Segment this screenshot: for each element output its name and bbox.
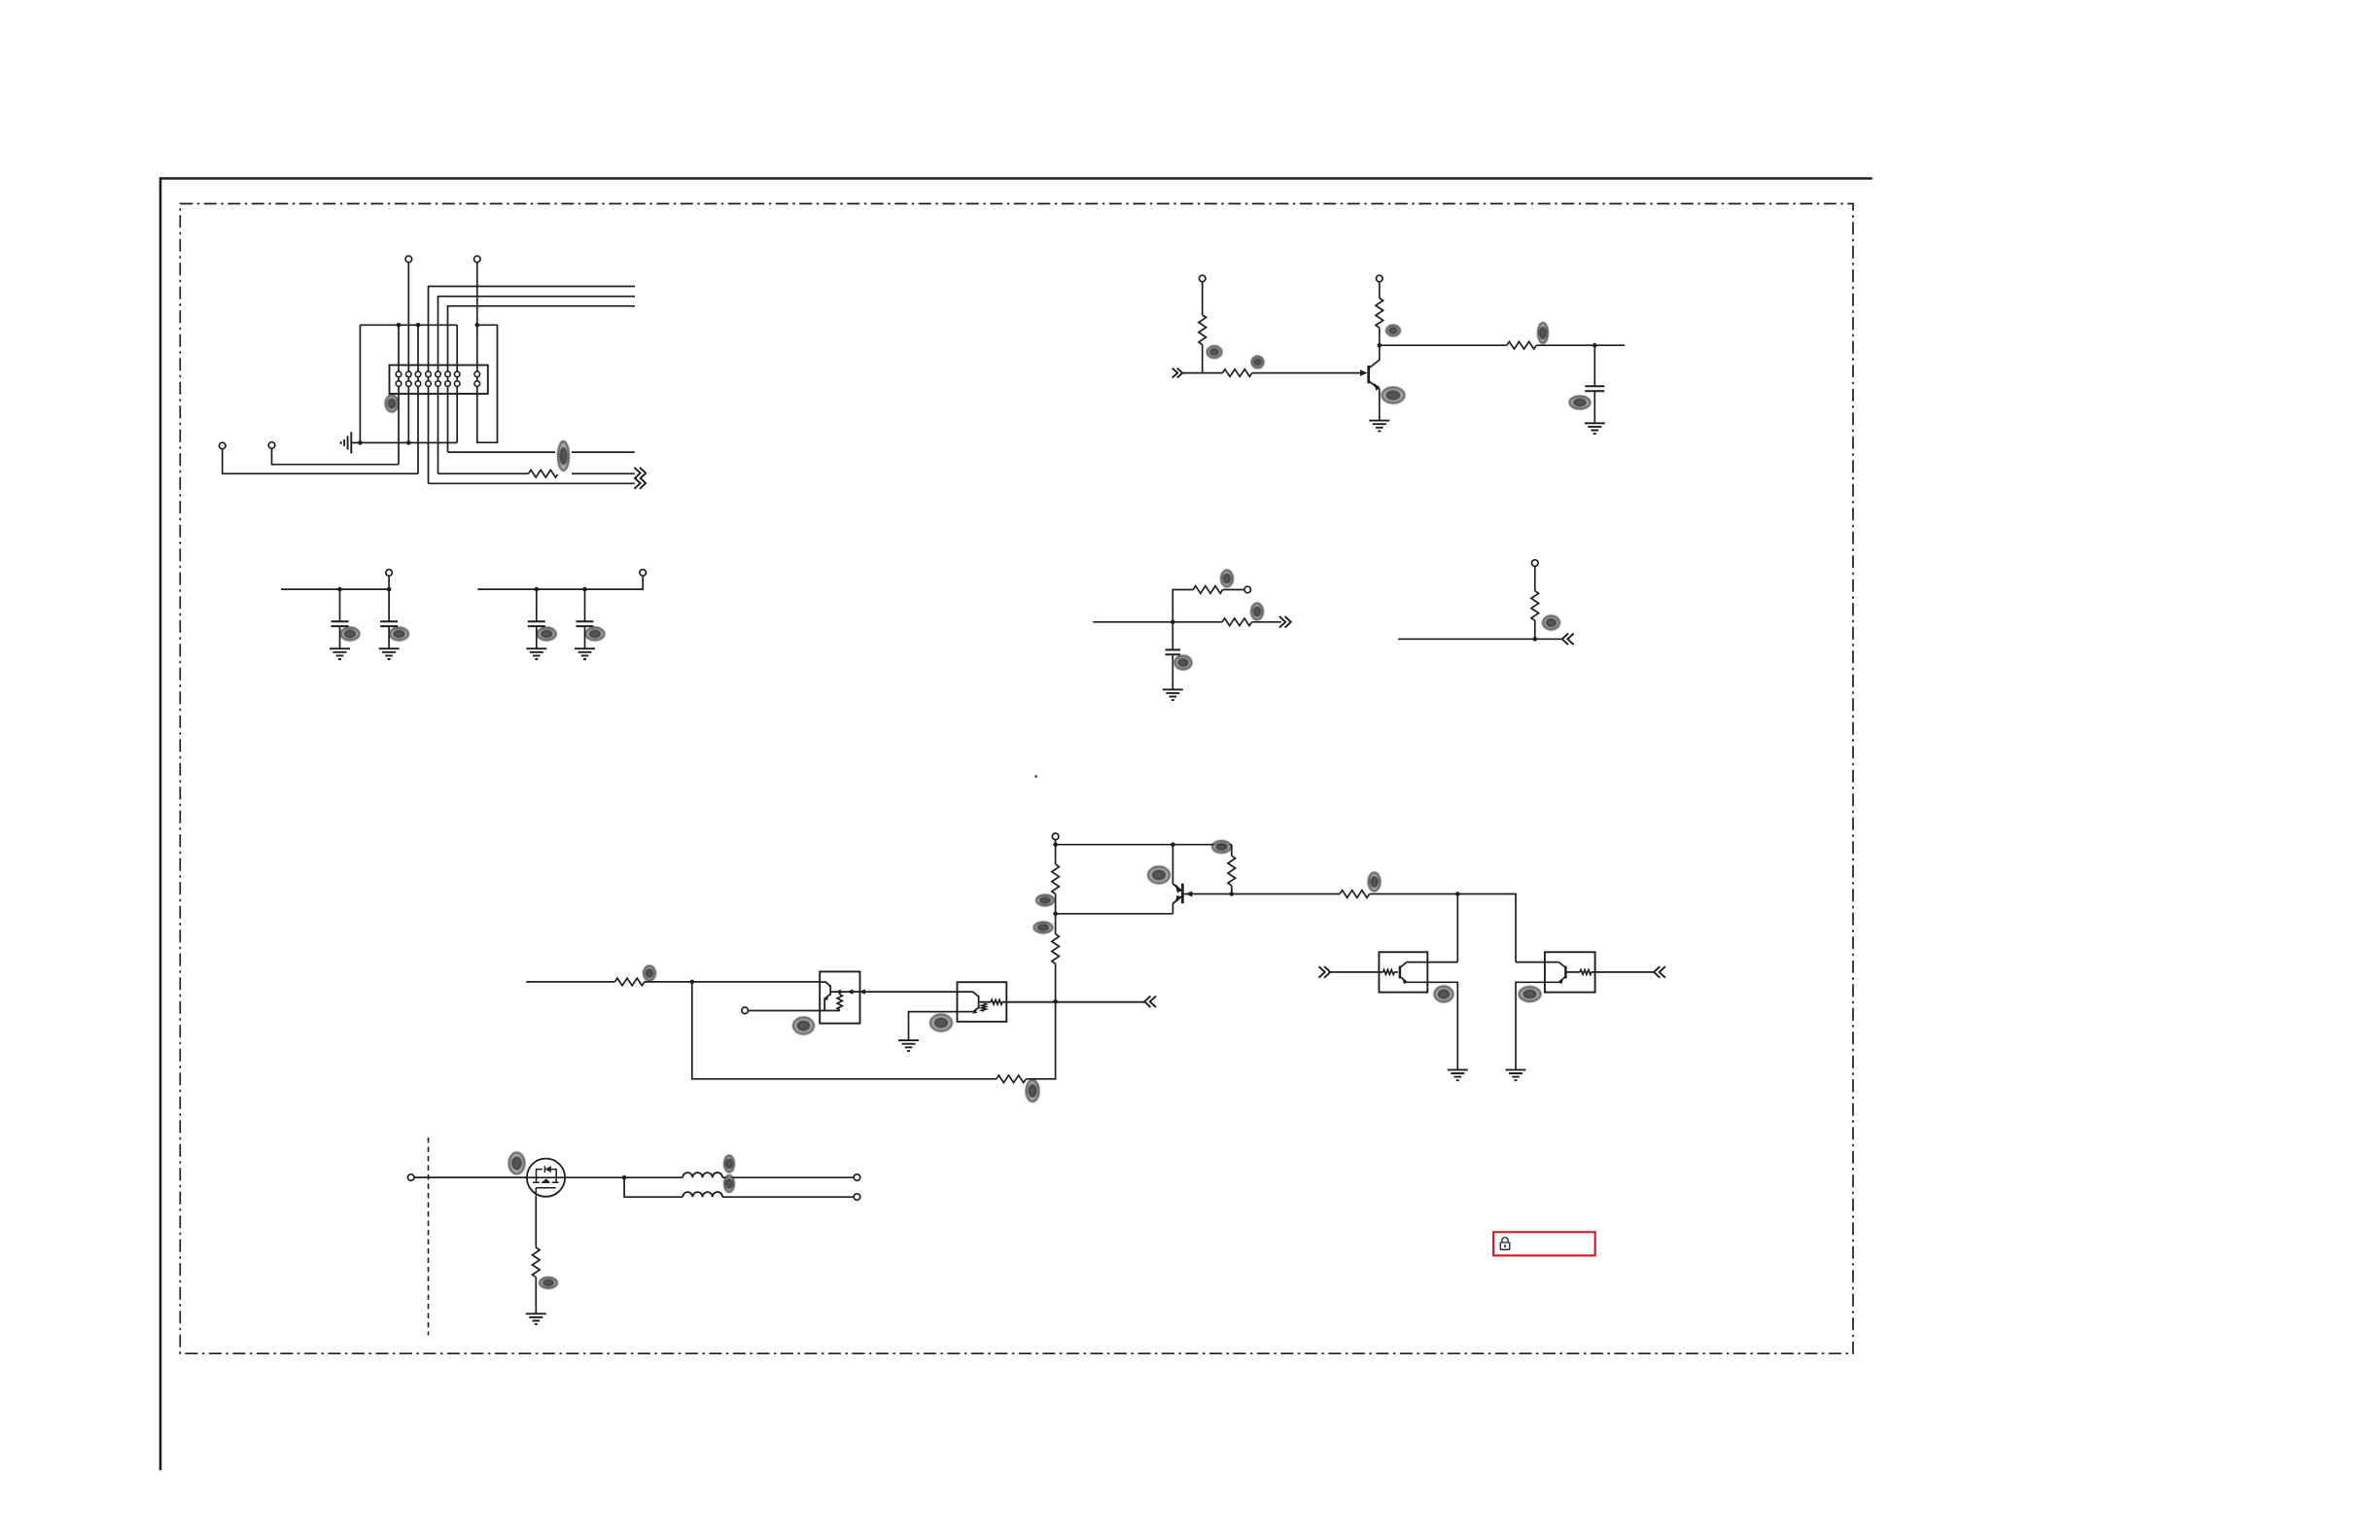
- optocoupler U4 body: [1545, 952, 1595, 992]
- input arrow chevron: [1172, 368, 1182, 378]
- ground (C3): [379, 648, 400, 659]
- U1 base-emitter resistor: [839, 992, 841, 995]
- U2 base-emitter resistor: [982, 1003, 986, 1010]
- U2 base resistor: [991, 999, 1002, 1004]
- value label C5: [586, 628, 605, 641]
- terminal P9: [1244, 586, 1251, 593]
- wire: collector node to RC filter: [1380, 344, 1625, 346]
- value label R8: [1386, 326, 1400, 336]
- wire: P11 to U1 emitter: [749, 1010, 841, 1012]
- junction RC node: [1592, 343, 1597, 348]
- label U3: [1435, 987, 1453, 1002]
- capacitor C4: [536, 589, 538, 648]
- ground (R19): [526, 1313, 546, 1324]
- label Q2: [1148, 867, 1170, 884]
- wire: RC node to capacitor C1: [1593, 345, 1595, 423]
- inductor L2: [682, 1192, 722, 1197]
- connector ref label: [386, 396, 399, 412]
- junction node B: [1533, 637, 1538, 642]
- resistor R11: [1193, 586, 1222, 594]
- wire: Q3 gate to resistor R19: [535, 1197, 537, 1314]
- wire: feedback path bottom with resistor R14: [692, 982, 1056, 1079]
- wire: pin col 6 with top bend: [448, 306, 636, 452]
- resistor R7: [1222, 369, 1251, 377]
- dashed partition line: [428, 1137, 430, 1335]
- value label L1: [724, 1156, 734, 1172]
- wire: node B rail: [1398, 638, 1562, 640]
- U2 phototransistor: [958, 992, 1145, 1011]
- resistor R9: [1507, 341, 1536, 349]
- wire: source node down to choke L2: [624, 1177, 854, 1197]
- label U2: [930, 1015, 952, 1032]
- resistor R14: [997, 1075, 1026, 1083]
- inductor L1: [682, 1172, 722, 1177]
- value label C2: [341, 628, 360, 641]
- wire: ground bus (bottom): [352, 441, 458, 443]
- value label R13: [644, 966, 655, 981]
- optocoupler U2 body: [958, 982, 1007, 1022]
- transistor Q1 (NPN): [1367, 366, 1370, 384]
- value label C4: [538, 628, 556, 641]
- terminal P7: [386, 570, 393, 577]
- resistor R13: [614, 978, 644, 986]
- off-page arrow (U3 input): [1319, 966, 1331, 978]
- wire: pin col 5 with top bend: [438, 297, 636, 473]
- wire: U3 collector up / emitter down: [1407, 962, 1457, 1070]
- wire: pin col 3: [417, 325, 419, 473]
- lock icon: [1500, 1238, 1510, 1250]
- base arrowhead: [1360, 369, 1368, 376]
- resistor R19: [533, 1247, 541, 1277]
- wire: U1 base light path to U2: [831, 991, 958, 993]
- wire: input to U4: [1566, 971, 1654, 973]
- wire: node A up to resistor R11: [1172, 590, 1244, 622]
- wire: input to base with resistor R7: [1182, 372, 1361, 374]
- ground (U3 emitter): [1448, 1069, 1468, 1080]
- value label R17 top: [1212, 841, 1231, 853]
- value label C1: [1570, 397, 1591, 409]
- value label L2: [724, 1175, 734, 1192]
- ground (C4): [526, 648, 546, 659]
- value label C6: [1175, 656, 1192, 670]
- wire: pin4 output: [429, 482, 635, 484]
- U1 phototransistor: [820, 982, 830, 1010]
- wire: U4 collector up / emitter down: [1516, 962, 1558, 1070]
- resistor R5: [529, 470, 558, 477]
- U4 transistor: [1564, 966, 1567, 979]
- junction base rail: [1455, 892, 1460, 896]
- wire: divider chain resistor R16: [1055, 914, 1057, 1001]
- value label R15: [1036, 895, 1054, 906]
- wire: junction down to U3 collector: [1456, 894, 1458, 962]
- label Q1: [1382, 388, 1405, 403]
- label U4: [1520, 987, 1541, 1001]
- wire: Q2 collector to divider mid: [1056, 913, 1173, 915]
- off-page arrow (node A out): [1279, 616, 1291, 628]
- transistor Q2: [1181, 884, 1184, 904]
- resistor R12: [1531, 591, 1539, 620]
- signal ground symbol: [341, 432, 352, 453]
- value label R9: [1538, 323, 1548, 343]
- capacitor C6: [1172, 622, 1173, 690]
- value label R14: [1027, 1080, 1039, 1102]
- wire: left cap rail: [281, 576, 389, 589]
- junction node A: [1171, 620, 1175, 625]
- junction collector node: [1378, 343, 1382, 348]
- terminal P14: [854, 1174, 860, 1181]
- label Q3: [509, 1153, 525, 1174]
- light arrows U1: [847, 989, 854, 994]
- wire: right cap rail: [477, 576, 643, 589]
- capacitor C2: [339, 589, 341, 648]
- net label on pin6 wire: [555, 439, 572, 474]
- wire: P10 through resistor R12: [1534, 566, 1536, 639]
- value label R12: [1543, 616, 1559, 630]
- junction Q2 emitter top: [1171, 842, 1175, 847]
- ground (C6): [1163, 689, 1183, 700]
- ground (C5): [575, 648, 595, 659]
- wire: pin col 8 top (terminal P2): [476, 262, 478, 384]
- junction source node: [622, 1175, 627, 1180]
- off-page arrow (pin4 net): [634, 477, 646, 489]
- junction divider mid: [1053, 912, 1058, 917]
- junction input node: [690, 980, 695, 985]
- resistor R8 (collector): [1376, 298, 1383, 328]
- capacitor C1: [1585, 386, 1604, 391]
- junction top rail: [1053, 842, 1058, 847]
- capacitor C5: [584, 589, 586, 648]
- wire: P12 stem: [1055, 840, 1057, 845]
- terminal P5: [1199, 275, 1206, 282]
- ground (C2): [330, 648, 350, 659]
- wire: terminal P3 to pin 3: [223, 449, 418, 473]
- ground (Q1 emitter): [1369, 421, 1389, 432]
- wire: Q2 base to right with resistor R18: [1232, 894, 1516, 962]
- off-page arrow (U4 input): [1654, 966, 1665, 978]
- wire: pin6 output: [448, 451, 635, 453]
- terminal P12: [1052, 833, 1059, 840]
- wire: input to U3: [1330, 971, 1398, 973]
- ground (U2 emitter): [898, 1040, 919, 1051]
- value label R18: [1369, 873, 1381, 892]
- resistor R17: [1231, 845, 1233, 894]
- U3 input resistor: [1383, 970, 1395, 975]
- wire: Q3 source to choke L1: [565, 1176, 854, 1178]
- off-page arrow (U2 output): [1144, 996, 1156, 1007]
- wire: P13 to Q3 drain: [414, 1176, 527, 1178]
- capacitor C3: [388, 589, 390, 648]
- off-page arrow (pin5 net): [634, 468, 646, 479]
- value label R6: [1207, 346, 1222, 358]
- optocoupler U1 body: [820, 971, 859, 1023]
- ground (C1): [1585, 423, 1605, 434]
- wire: ground bus A (top): [360, 324, 457, 326]
- wire: top rail to Q2 emitter and R17: [1056, 845, 1232, 885]
- wire: left box vertical: [359, 325, 361, 442]
- value label R19: [540, 1277, 557, 1288]
- frame: inner dash-dot boundary: [180, 204, 1853, 1354]
- wire: P5 down to input node: [1202, 282, 1204, 373]
- resistor R6 (pull-up): [1199, 315, 1207, 344]
- junction dots on connector buses: [397, 323, 402, 328]
- terminal P15: [854, 1194, 860, 1201]
- frame: outer solid border (top + left): [160, 177, 1872, 1470]
- wire: pin col 2 (terminal P1 to gnd bus): [407, 262, 409, 443]
- junction Q2 base node: [1230, 892, 1235, 896]
- wire: input rail with resistor R13: [526, 981, 820, 983]
- terminal P8: [640, 570, 647, 577]
- connector pin circles: [396, 371, 402, 377]
- label U1: [793, 1018, 814, 1034]
- value label R11: [1221, 571, 1233, 587]
- wire: pin col 1: [398, 325, 400, 464]
- wire: U2 emitter to ground: [909, 1012, 974, 1041]
- value label R10: [1251, 604, 1263, 620]
- U3 transistor: [1399, 966, 1402, 979]
- off-page arrow (node B in): [1562, 634, 1574, 646]
- wire: pin5 output with resistor R5: [438, 472, 635, 474]
- wire: bus B to pin 8 loop: [477, 325, 498, 442]
- stray mark: [1034, 775, 1037, 778]
- junction U2 output / divider: [1053, 999, 1058, 1004]
- terminal P6: [1377, 275, 1383, 282]
- optocoupler U3 body: [1379, 952, 1427, 992]
- security stamp box: [1493, 1232, 1595, 1255]
- wire: pin col 4 with top bend: [429, 287, 636, 484]
- wire: node A rail: [1093, 621, 1281, 623]
- value label R7: [1252, 357, 1264, 368]
- resistor R10: [1222, 618, 1251, 626]
- connector J1 body: [390, 366, 488, 395]
- terminal P4: [268, 442, 275, 449]
- MOSFET Q3 (circle): [527, 1159, 565, 1197]
- terminal P1: [405, 256, 412, 262]
- U4 input resistor: [1580, 970, 1592, 975]
- terminal P3: [219, 442, 226, 449]
- wire: divider chain resistor R15: [1055, 845, 1057, 914]
- terminal P13: [407, 1174, 414, 1181]
- ground (U4 emitter): [1506, 1069, 1526, 1080]
- terminal P2: [474, 256, 481, 262]
- terminal P11: [742, 1007, 749, 1014]
- value label C3: [390, 628, 408, 641]
- wire: P6 to collector node: [1379, 282, 1381, 345]
- wire: terminal P4 to pin 1: [272, 448, 400, 464]
- value label R16: [1034, 923, 1053, 933]
- wire: pin col 7: [456, 325, 458, 442]
- terminal P10: [1532, 560, 1539, 567]
